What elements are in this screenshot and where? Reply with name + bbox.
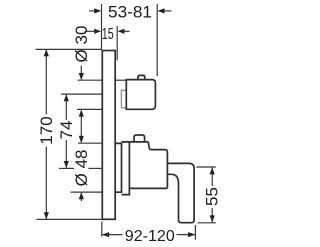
arrowhead 92-120 right (points right) [188,232,195,237]
arrowhead 92-120 left (points left) [102,232,109,237]
arrowhead 15 right (points left) [118,29,125,34]
arrowhead dia48 top (points down) [79,136,84,143]
upper sleeve (behind thermostat handle) [121,90,126,108]
lower ring 2 (outer sleeve) [122,142,130,195]
dim 55 line segments [211,168,213,187]
wall plate (escutcheon, side view) [102,51,115,220]
lower ring 1 (escutcheon sleeve o48) [116,143,122,192]
upper thermostat handle (cylinder side view) [126,80,155,110]
dim 170 top extension line [36,48,102,50]
dim 55 bottom extension line [198,222,216,224]
dim 170 line segments [45,50,47,115]
arrowhead dia30 top (points down at handle top) [79,73,84,80]
lower knob (button on volume handle) [134,135,145,142]
lower axis extension line (dim 74 bottom, broken by dia48 text) [59,167,74,169]
arrowhead 74 top (points up) [64,94,69,101]
arrowhead 170 bottom (points down) [44,212,49,219]
dia 30 bottom extension line (handle bottom) [77,108,102,110]
svg-text:15: 15 [102,26,114,43]
arrowhead 170 top (points up) [44,49,49,56]
dia column leader seg C (below dia48 bottom) [80,193,82,201]
upper axis extension line (dim 74 top) [61,93,102,95]
dia column leader seg A (above handle) [80,66,82,80]
arrowhead 55 bottom (points down) [210,215,215,222]
dim 170 bottom extension line [36,218,102,220]
svg-text:Ø 48: Ø 48 [72,149,91,186]
upper knob (safety button on thermostat handle) [138,75,145,79]
lower hub bottom edge [129,187,167,189]
dim 55 top extension line [196,166,216,168]
svg-text:55: 55 [203,187,222,206]
dia column leader seg B (between dia30 bottom and dia48 top) [80,111,82,143]
dim 74 line segments [65,95,67,120]
svg-text:53-81: 53-81 [108,4,152,22]
arrowhead dia30 bottom (points up at handle bottom) [79,110,84,117]
arrowhead dia48 bottom (points up) [79,192,84,199]
dim 15 right extension line (plate front) [116,26,118,60]
dia 48 bottom extension line [71,191,102,193]
svg-text:170: 170 [37,116,56,144]
dim 92-120 left extension line (below plate) [101,222,103,237]
arrowhead 55 top (points up) [210,167,215,174]
arrowhead 53-81 left (points right at plate back line) [94,8,101,13]
lever handle (L-shape, down-pointing grip) [167,163,194,222]
dia 48 top extension line [78,142,102,144]
dim 92-120 right extension line (below lever) [194,225,196,240]
dim 53-81 right extension line [156,4,158,76]
dim 15 arrow tails [85,30,96,32]
svg-text:74: 74 [57,121,76,140]
lower hub (volume control handle body with step profile) [129,142,167,189]
svg-text:Ø 30: Ø 30 [72,26,91,63]
arrowhead 74 bottom (points down) [64,161,69,168]
arrowhead 15 left (points right) [94,29,101,34]
dim 53-81 arrow tails [89,10,96,12]
svg-text:92-120: 92-120 [125,228,175,245]
dim 92-120 line segments [102,234,122,236]
dia 30 top extension line (handle top) [78,79,102,81]
dim 53-81 left extension line (plate back, above plate) [101,4,103,50]
arrowhead 53-81 right (points left) [158,8,165,13]
